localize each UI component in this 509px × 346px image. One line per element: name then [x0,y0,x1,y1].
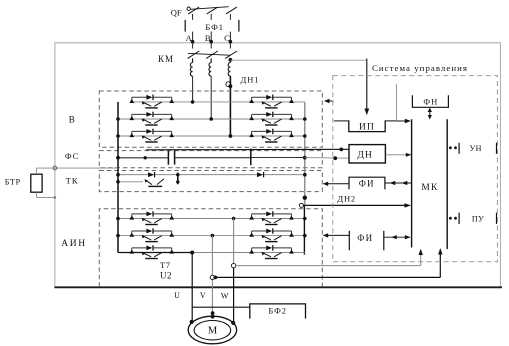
svg-text:В: В [69,115,75,125]
IGBT module inverter right bottom [249,245,294,258]
svg-text:Т7: Т7 [160,260,170,270]
control system dashed box [333,76,498,262]
svg-text:КМ: КМ [158,54,174,64]
inverter row line 3 grey part [192,252,305,254]
inverter row line 3 black part [118,252,192,254]
node on DC minus sense wire [333,156,337,160]
wire phase W down grey part [233,219,235,264]
svg-text:V: V [200,291,206,300]
motor M inner ellipse [194,321,231,340]
panel UN connector dots [449,146,452,149]
motor M outer ellipse [188,316,236,344]
wire QF to BF1 phase A [192,14,194,20]
inverter row line 2 [118,235,305,237]
voltage divider DN box [349,145,385,163]
grey vertical into IP junction [395,84,397,121]
outer enclosure border [55,43,501,287]
node capacitor line mid [144,156,147,159]
svg-text:ДН: ДН [357,151,373,161]
svg-text:W: W [221,292,229,301]
panel UN left bar [458,143,460,154]
contactor KM blade phase B [206,51,218,58]
node right bus capacitor line [303,156,307,160]
svg-text:БТР: БТР [5,177,21,186]
capacitor second plate [250,149,252,166]
filter block BF1 [185,20,239,32]
contactor KM blade phase C [225,51,237,58]
IGBT module rectifier left top [129,95,174,108]
double arrow FN to MK [429,110,431,117]
node phase A on row1 [191,100,195,104]
freewheel diode chopper [257,172,263,177]
node right bus inverter row1 [303,217,307,221]
tick at border bottom lead [54,196,57,199]
svg-text:МК: МК [421,183,438,193]
inverter row line 1 [118,218,305,220]
rectifier section dashed box B [99,91,322,147]
wire BF1 to border phase B [210,32,212,42]
svg-text:ДН2: ДН2 [337,193,356,203]
panel PU left bar [458,213,460,224]
svg-text:АИН: АИН [61,239,86,249]
wire FI bottom to MK [384,236,407,238]
node left bus inverter row2 [116,234,120,238]
DC link capacitor line [118,157,305,159]
speed sensor BF2 box [250,304,306,319]
node left bus chopper emitter [116,180,120,184]
brake resistor bottom lead [37,192,56,197]
chopper section dashed box TK [99,171,322,192]
rectifier row line 2 [118,118,305,120]
wire MK to FI mid with arrows [385,182,411,184]
chopper emitter wire [118,181,143,183]
motor terminal V [211,311,215,315]
node phase A at border [191,40,195,44]
node phase C tap to IP [229,58,233,62]
wire DN to MK [385,154,411,156]
gate drive arrow into rectifier [327,100,334,102]
svg-text:ПУ: ПУ [472,214,484,223]
node left bus inverter row1 [116,217,120,221]
gate drive wire from FI to chopper [326,183,349,185]
node phase C on row3 [229,134,233,138]
voltage sensor DN1 clamp circle on phase C [226,82,231,87]
circuit breaker QF hinge circle [187,7,190,10]
panel PU right bar [496,213,498,224]
brake resistor BTR body [31,174,42,192]
node right bus chopper [303,173,307,177]
panel UN right bar [496,143,498,154]
reactor choke phase C [228,61,230,77]
IGBT module rectifier right top [249,95,294,108]
contactor KM linkage bar [188,53,230,55]
svg-text:ФС: ФС [65,151,79,161]
node on DC plus sense wire [339,148,343,152]
filter section dashed box FS [99,151,322,168]
svg-text:БФ1: БФ1 [205,22,224,32]
DC negative bus left [117,102,119,253]
IGBT module rectifier left bottom [129,129,174,142]
svg-text:ФИ: ФИ [359,178,375,188]
chopper terminal bar [177,173,179,185]
chopper top wire [118,174,305,176]
wire border to KM phase C [229,42,231,49]
IGBT module inverter left top [129,211,174,224]
DC positive bus right black lower [303,205,305,254]
wire drop into IP with arrow [366,59,368,111]
node left bus chopper top [116,173,120,177]
wire BF1 to border phase C [229,32,231,42]
svg-text:М: М [208,326,218,337]
motor terminal U [190,320,194,324]
svg-text:ТК: ТК [66,175,79,185]
power supply IP box [349,120,385,131]
outer enclosure bottom heavy line [55,286,503,288]
IP left wing wire [334,120,349,122]
chopper IGBT transistor [145,179,164,185]
rectifier row line 1 [132,101,305,103]
IGBT module inverter right top [249,211,294,224]
reactor choke phase A [190,58,192,76]
wire border to KM phase A [192,42,194,49]
node phase V tap on row2 [211,234,215,238]
wire border to KM phase B [210,42,212,49]
node phase B on row2 [209,117,213,121]
svg-text:УН: УН [469,144,481,153]
junction circle on border [53,166,57,170]
IGBT module rectifier right middle [249,112,294,125]
IGBT module inverter left middle [129,228,174,241]
wire IP to MK with arrow [396,120,406,122]
wire choke A down into rectifier [192,76,194,102]
sense circle on phase W [231,263,235,267]
node right bus row2 [303,117,307,121]
svg-text:ИП: ИП [359,122,375,132]
inverter section dashed box AIN [99,209,322,287]
sense circle on phase V [210,275,214,279]
node phase U tap on row3 [190,251,194,255]
wire choke C down into rectifier [229,76,231,136]
node phase B at border [209,40,213,44]
pulse shaper FI bottom left bar [348,231,350,251]
IGBT module rectifier right bottom [249,129,294,142]
node right of V circle [213,276,217,280]
node phase C at border [229,40,233,44]
svg-text:U2: U2 [160,270,172,280]
IP right wing wire [385,120,396,122]
IGBT module rectifier left middle [129,112,174,125]
capacitor C plates [168,151,174,165]
node left bus row2 [116,117,120,121]
circuit breaker QF blade phase A [188,7,199,14]
rectifier row line 3 [118,135,305,137]
svg-text:Система управления: Система управления [372,63,468,73]
reactor choke phase B [209,58,211,76]
wire QF to BF1 phase B [210,14,212,20]
DC minus sense wire to DN [305,157,349,160]
block FN box [412,95,448,107]
wire phase W down black part [233,268,235,323]
microcontroller MK right edge [446,119,448,249]
wire to speed sensor BF2 [192,306,250,308]
circuit breaker QF blade phase B [207,7,218,14]
wire phase V down [211,236,213,316]
svg-text:ФИ: ФИ [357,233,373,243]
circuit breaker QF linkage bar [190,7,228,10]
sense wire phase V to MK [215,251,440,278]
wire choke B down into rectifier [210,76,212,119]
svg-text:U: U [174,291,180,300]
svg-text:ФН: ФН [423,96,438,106]
node phase W tap on row1 [232,217,236,221]
node right bus below chopper [303,196,307,200]
sense wire phase W to MK grey [236,252,421,266]
circuit breaker QF blade phase C [226,7,237,14]
svg-text:ДН1: ДН1 [241,74,260,84]
gate drive wire from FI to inverter [326,234,349,236]
IGBT module inverter left bottom T7 [129,245,174,258]
wire BF1 to border phase A [192,32,194,42]
wire QF to BF1 phase C [229,14,231,20]
pulse shaper FI bottom right bar [383,231,385,251]
wire tap phase C to IP drop [230,59,366,61]
panel PU connector dots [449,217,452,220]
svg-text:БФ2: БФ2 [268,305,287,315]
contactor KM blade phase A [188,51,200,58]
node left bus row3 [116,134,120,138]
chopper IGBT diode [148,172,154,177]
microcontroller MK left edge [411,119,413,247]
IGBT module inverter right middle [249,228,294,241]
DN2 sense junction circle [299,203,303,207]
svg-text:QF: QF [171,8,182,18]
node left bus capacitor line [116,156,120,160]
node right bus inverter row2 [303,234,307,238]
pulse shaper FI mid box [349,177,385,189]
DC plus sense wire to DN [146,148,349,151]
wire phase U down to motor [191,253,193,322]
brake resistor top lead [37,168,119,174]
node below clamp [229,84,233,88]
node right bus row3 [303,134,307,138]
motor terminal W [231,321,235,325]
DC positive bus right grey upper [304,102,306,205]
DN2 sense wire to MK [303,204,406,206]
